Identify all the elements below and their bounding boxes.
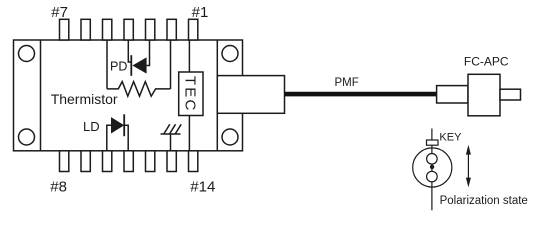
right flange line: [216, 40, 218, 151]
pin #14: [189, 151, 198, 172]
ground hatch 2: [170, 124, 176, 133]
svg-text:FC-APC: FC-APC: [464, 55, 509, 69]
key axis line: [431, 129, 433, 211]
mounting hole bottom-right: [222, 129, 238, 145]
pin #1: [189, 19, 198, 40]
wire TEC top to pin 1: [188, 40, 190, 72]
pin #13: [167, 151, 176, 172]
svg-text:KEY: KEY: [439, 131, 462, 143]
fiber core dot: [430, 165, 434, 169]
mounting hole top-right: [222, 46, 238, 62]
mounting hole top-left: [19, 46, 35, 62]
PMF fiber: [285, 92, 437, 97]
pin #5: [103, 19, 112, 40]
svg-text:#7: #7: [51, 4, 68, 21]
FC-APC back shell: [437, 86, 468, 103]
pin #3: [146, 19, 155, 40]
wire PD anode to pin 3: [147, 40, 150, 66]
left flange line: [40, 40, 42, 151]
laser diode LD triangle: [111, 117, 124, 133]
polarization arrow head top: [466, 145, 471, 155]
pin #2: [167, 19, 176, 40]
FC-APC connector body: [468, 74, 500, 116]
wire thermistor left to pin 5: [106, 40, 108, 89]
pin #9: [81, 151, 90, 172]
ground hatch 3: [175, 124, 181, 133]
svg-text:TEC: TEC: [182, 76, 199, 113]
pin #10: [103, 151, 112, 172]
upper stress rod circle: [427, 154, 438, 165]
svg-text:#8: #8: [50, 178, 67, 195]
svg-text:LD: LD: [83, 119, 100, 134]
pin #7: [60, 19, 69, 40]
svg-text:PD: PD: [110, 60, 127, 74]
wire TEC bottom to pin 14: [188, 116, 190, 151]
polarization arrow head bottom: [466, 178, 471, 188]
pin #6: [81, 19, 90, 40]
fiber snout: [217, 76, 284, 114]
lower stress rod circle: [427, 171, 438, 182]
svg-text:PMF: PMF: [335, 77, 359, 89]
package body: [14, 40, 243, 151]
laser diode LD cathode bar: [123, 114, 125, 136]
thermistor R1 zigzag: [107, 82, 171, 97]
wire PD cathode to pin 4: [128, 40, 131, 62]
pin #4: [124, 19, 133, 40]
svg-text:Polarization state: Polarization state: [440, 195, 528, 207]
pin #8: [60, 151, 69, 172]
svg-text:#14: #14: [190, 178, 215, 195]
mounting hole bottom-left: [19, 129, 35, 145]
ground hatch 1: [164, 124, 170, 133]
photodiode PD cathode bar: [130, 55, 132, 76]
ground symbol bar: [161, 133, 181, 135]
photodiode PD triangle: [132, 57, 146, 73]
connector end-face circle: [413, 148, 452, 187]
FC-APC ferrule tip: [500, 89, 521, 100]
polarization arrow shaft: [467, 150, 469, 182]
wire ground to pin 13: [170, 134, 172, 151]
key rectangle: [427, 140, 439, 145]
wire thermistor right to pin 2: [170, 40, 172, 89]
pin #12: [146, 151, 155, 172]
wire LD anode to pin 10: [107, 125, 111, 151]
svg-text:#1: #1: [192, 4, 209, 21]
TEC block: [179, 72, 203, 116]
wire LD cathode to pin 11: [124, 125, 128, 151]
pin #11: [124, 151, 133, 172]
svg-text:Thermistor: Thermistor: [51, 91, 118, 107]
